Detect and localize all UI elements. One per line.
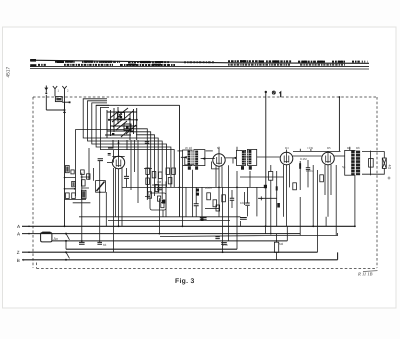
- svg-text:+CB: +CB: [307, 146, 313, 150]
- svg-text:+: +: [23, 257, 26, 262]
- svg-text:B6: B6: [356, 146, 360, 150]
- svg-text:25n: 25n: [223, 243, 228, 247]
- svg-text:4Ω: 4Ω: [388, 165, 392, 170]
- svg-text:0.1M: 0.1M: [300, 157, 307, 161]
- svg-text:M2: M2: [279, 242, 283, 246]
- svg-text:1M: 1M: [157, 180, 162, 184]
- svg-text:B5: B5: [327, 146, 331, 150]
- svg-text:4517: 4517: [6, 66, 12, 77]
- svg-text:Z: Z: [17, 250, 20, 255]
- svg-text:150: 150: [57, 97, 62, 101]
- svg-text:Av: Av: [54, 237, 58, 241]
- svg-text:R 11 1B: R 11 1B: [357, 272, 373, 277]
- svg-text:100n: 100n: [205, 186, 212, 190]
- svg-text:63: 63: [103, 243, 107, 247]
- svg-text:10n: 10n: [240, 201, 245, 205]
- svg-text:5p: 5p: [342, 165, 346, 169]
- svg-text:B4: B4: [285, 146, 289, 150]
- svg-text:50: 50: [246, 155, 250, 159]
- svg-text:B6: B6: [347, 146, 351, 150]
- svg-text:100n: 100n: [306, 169, 313, 173]
- svg-text:B: B: [17, 258, 20, 263]
- svg-text:Fig. 3: Fig. 3: [175, 278, 195, 285]
- svg-text:W 10: W 10: [185, 146, 192, 150]
